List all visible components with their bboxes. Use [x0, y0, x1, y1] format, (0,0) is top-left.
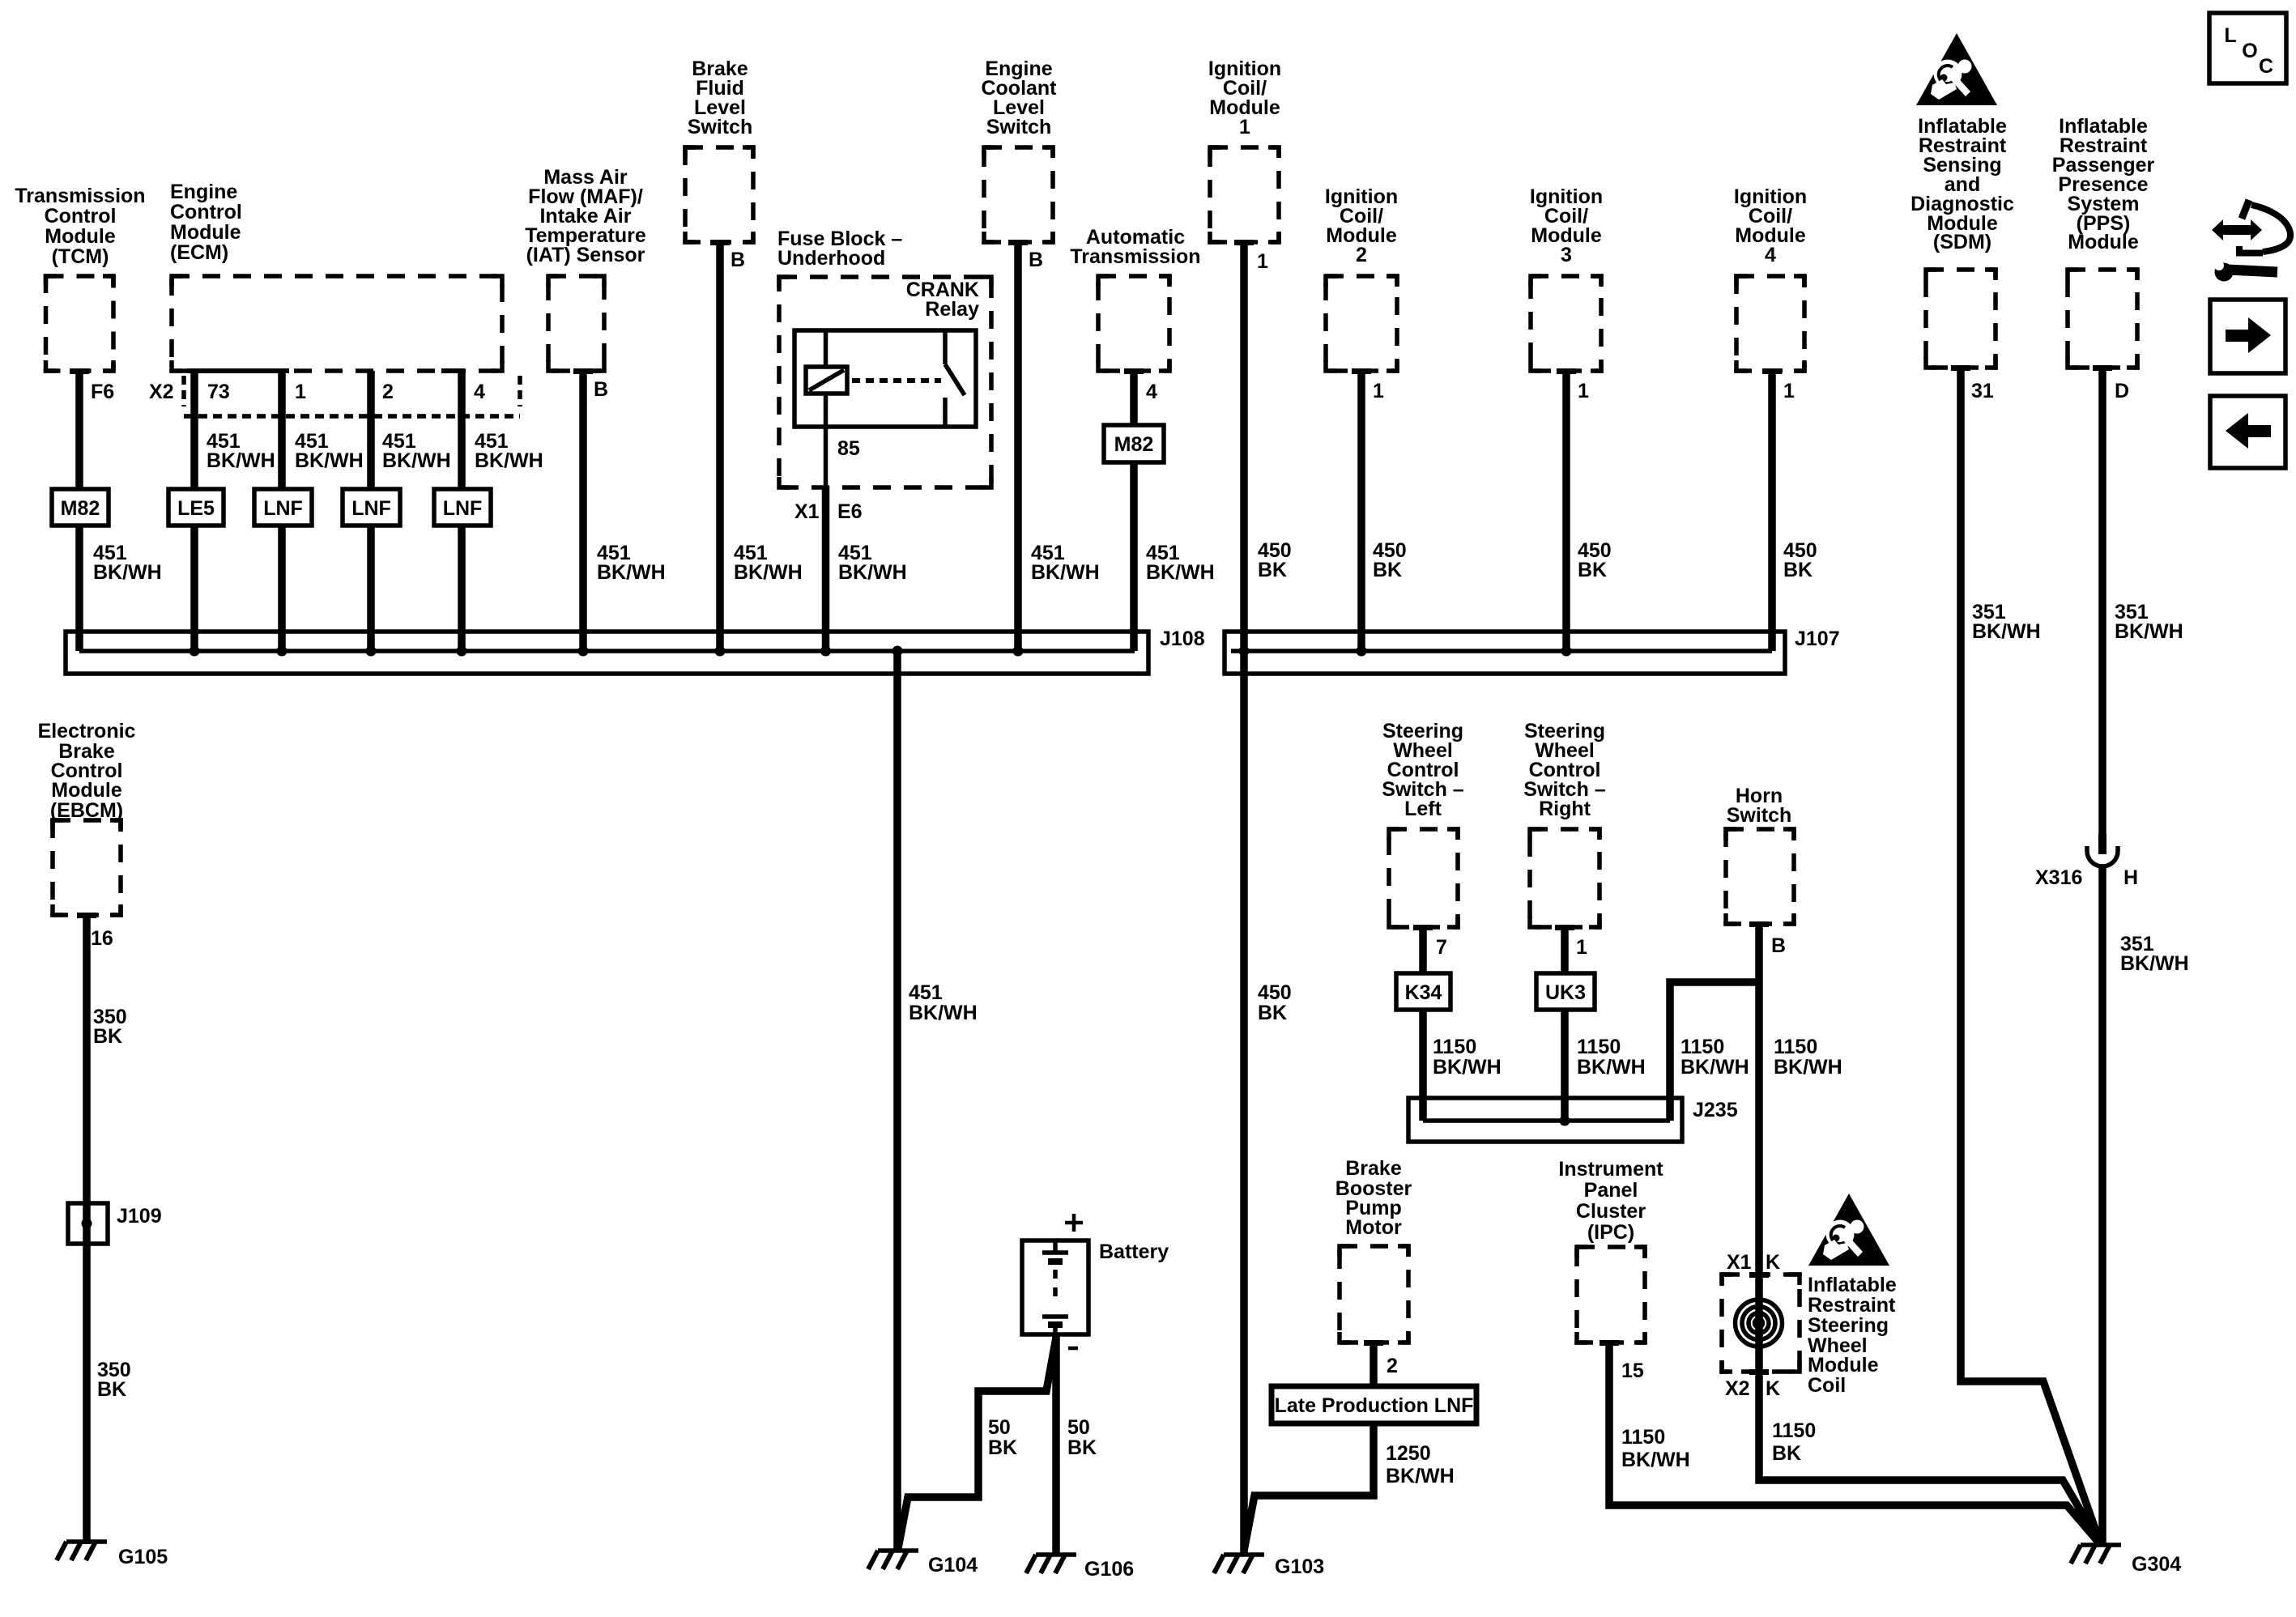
ground G103 — [1214, 1555, 1264, 1573]
TCM pin bar — [70, 368, 89, 374]
wire coil 3 to J107 — [1562, 371, 1570, 651]
Horn Switch label — [1727, 785, 1792, 827]
svg-text:BK/WH: BK/WH — [2115, 620, 2183, 643]
svg-text:4: 4 — [1765, 244, 1776, 266]
relay switch blade — [945, 364, 965, 395]
Ignition Coil/Module 2 label — [1325, 185, 1398, 266]
svg-text:1150: 1150 — [1680, 1036, 1724, 1058]
inline connector X316 — [2098, 834, 2106, 854]
svg-text:1150: 1150 — [1577, 1036, 1621, 1058]
wire coil 2 to J107 — [1357, 371, 1365, 651]
splice J109 — [68, 1203, 108, 1244]
wire MAF to J108 — [579, 371, 587, 651]
svg-text:1: 1 — [1783, 380, 1795, 402]
svg-text:X2: X2 — [149, 381, 174, 403]
svg-text:UK3: UK3 — [1545, 981, 1586, 1004]
back arrow box — [2210, 396, 2285, 468]
svg-text:50: 50 — [988, 1416, 1011, 1439]
svg-text:Cluster: Cluster — [1576, 1200, 1646, 1223]
battery cells — [1053, 1240, 1058, 1253]
svg-text:G105: G105 — [118, 1546, 168, 1568]
battery plus sign — [1065, 1214, 1083, 1232]
BBPM pin bar — [1364, 1340, 1383, 1346]
Ignition Coil/Module 2 box — [1326, 276, 1397, 371]
svg-text:85: 85 — [837, 437, 860, 460]
svg-text:450: 450 — [1258, 981, 1292, 1004]
svg-text:1150: 1150 — [1772, 1419, 1816, 1442]
clockspring pin bar upper — [1749, 1272, 1769, 1278]
wire ECM pin 2 to LNF — [367, 371, 375, 489]
relay coil feed wire — [824, 330, 829, 367]
splice pack J108 — [66, 632, 1148, 674]
wire SWCS-R to UK3 — [1561, 927, 1569, 973]
Engine Coolant Level Switch label — [981, 57, 1057, 138]
svg-text:Underhood: Underhood — [777, 247, 885, 270]
wire J108 to G104 — [893, 651, 901, 1551]
svg-text:Control: Control — [45, 205, 117, 228]
Ignition Coil/Module 1 label — [1208, 57, 1281, 138]
svg-text:X1: X1 — [794, 500, 820, 523]
svg-text:(TCM): (TCM) — [52, 245, 109, 268]
svg-text:73: 73 — [207, 381, 230, 403]
J235 bus bar — [1423, 1118, 1670, 1123]
svg-text:Late Production LNF: Late Production LNF — [1275, 1394, 1474, 1417]
svg-text:BK/WH: BK/WH — [1433, 1056, 1502, 1079]
svg-text:Battery: Battery — [1099, 1240, 1169, 1263]
svg-text:BK: BK — [1258, 559, 1287, 581]
svg-text:4: 4 — [1146, 381, 1157, 403]
svg-text:O: O — [2242, 40, 2257, 62]
svg-text:Restraint: Restraint — [1808, 1294, 1896, 1317]
svg-text:H: H — [2123, 866, 2138, 889]
Brake Booster Pump Motor box — [1340, 1246, 1408, 1343]
coil 3 pin bar — [1557, 368, 1576, 374]
wire LNF1 to J108 — [278, 526, 286, 651]
Ignition Coil/Module 3 label — [1530, 185, 1603, 266]
Late Production LNF box — [1272, 1386, 1476, 1423]
ECM box — [172, 276, 502, 371]
IPC pin bar — [1600, 1340, 1619, 1346]
battery box — [1022, 1240, 1088, 1334]
svg-text:BK/WH: BK/WH — [2120, 952, 2189, 975]
svg-text:Relay: Relay — [925, 298, 979, 321]
BFS pin bar — [710, 240, 730, 245]
Steering Wheel Control Switch - Right label — [1523, 720, 1606, 820]
svg-text:M82: M82 — [61, 497, 100, 520]
svg-text:BK/WH: BK/WH — [295, 449, 364, 472]
SWCS Right box — [1530, 829, 1600, 927]
connector K34 — [1396, 973, 1450, 1010]
battery minus sign — [1068, 1347, 1078, 1351]
connector LNF 1 — [254, 489, 312, 526]
svg-text:K34: K34 — [1405, 981, 1442, 1004]
ECLS pin bar — [1008, 240, 1028, 245]
Ignition Coil/Module 4 box — [1736, 276, 1804, 371]
J107 bus bar — [1231, 649, 1772, 653]
svg-text:BK: BK — [988, 1436, 1017, 1459]
Instrument Panel Cluster (IPC) label — [1558, 1158, 1663, 1244]
wire SWCS-L to K34 — [1419, 927, 1427, 973]
service icon: wrench — [2215, 263, 2234, 282]
svg-text:L: L — [2224, 24, 2236, 47]
TCM connector box — [46, 276, 114, 371]
PPS box — [2068, 270, 2137, 368]
Ignition Coil/Module 4 label — [1734, 185, 1807, 266]
svg-text:J107: J107 — [1795, 628, 1840, 650]
Automatic Transmission label — [1070, 226, 1200, 268]
svg-text:1: 1 — [1239, 116, 1250, 138]
svg-text:Module: Module — [51, 779, 122, 802]
svg-text:1250: 1250 — [1386, 1442, 1431, 1465]
MAF/IAT sensor box — [548, 276, 604, 371]
svg-text:BK: BK — [97, 1378, 126, 1401]
svg-text:Inflatable: Inflatable — [1808, 1274, 1897, 1296]
svg-text:Switch: Switch — [688, 116, 753, 138]
svg-text:Switch: Switch — [1727, 804, 1792, 827]
svg-text:G106: G106 — [1084, 1558, 1134, 1581]
wire ECLS to J108 — [1014, 242, 1022, 651]
svg-text:1150: 1150 — [1433, 1036, 1476, 1058]
svg-text:D: D — [2115, 380, 2129, 402]
SWCS Left box — [1389, 829, 1458, 927]
connector UK3 — [1536, 973, 1595, 1010]
wire EBCM to G105 — [83, 915, 91, 1544]
ground G104 — [868, 1551, 918, 1569]
svg-text:X316: X316 — [2035, 866, 2082, 889]
svg-text:BK/WH: BK/WH — [382, 449, 451, 472]
svg-text:B: B — [1771, 934, 1786, 957]
svg-text:K: K — [1766, 1377, 1780, 1400]
SDM box — [1926, 270, 1996, 368]
wire IPC to G304 — [1609, 1343, 2101, 1545]
wire SDM to G304 — [1961, 368, 2101, 1545]
wire battery to G106 — [1052, 1334, 1060, 1555]
svg-text:BK/WH: BK/WH — [1386, 1465, 1455, 1487]
svg-text:BK/WH: BK/WH — [1031, 561, 1100, 584]
EBCM pin bar — [77, 913, 96, 918]
svg-text:Steering: Steering — [1808, 1314, 1889, 1337]
Brake Fluid Level Switch label — [688, 57, 753, 138]
svg-text:C: C — [2259, 55, 2273, 78]
wire horn switch to clockspring and G304 — [1759, 924, 2101, 1545]
svg-text:BK: BK — [1783, 559, 1813, 581]
svg-text:BK/WH: BK/WH — [1577, 1056, 1646, 1079]
coil 2 pin bar — [1352, 368, 1371, 374]
clockspring coil spiral — [1736, 1300, 1783, 1347]
svg-text:7: 7 — [1436, 936, 1447, 959]
svg-text:LNF: LNF — [351, 497, 391, 520]
EBCM box — [53, 820, 121, 915]
svg-text:Module: Module — [1808, 1354, 1879, 1377]
svg-text:Electronic: Electronic — [38, 720, 136, 743]
warning triangle (clockspring) — [1808, 1194, 1889, 1266]
horn pin bar — [1749, 921, 1769, 927]
splice pack J235 — [1408, 1098, 1682, 1142]
svg-text:Left: Left — [1404, 798, 1442, 820]
svg-text:K: K — [1766, 1251, 1780, 1274]
wire UK3 to J235 — [1561, 1010, 1569, 1121]
junction dot on J235 — [1560, 1116, 1570, 1126]
svg-text:BK/WH: BK/WH — [838, 561, 907, 584]
svg-text:16: 16 — [91, 927, 113, 950]
junction dots on J108 — [190, 646, 200, 657]
svg-text:1150: 1150 — [1774, 1036, 1817, 1058]
clockspring pin bar lower — [1749, 1369, 1769, 1375]
svg-text:(SDM): (SDM) — [1933, 231, 1991, 253]
PPS pin bar — [2093, 365, 2112, 371]
relay switch fixed contact top — [943, 330, 948, 364]
svg-text:X1: X1 — [1727, 1251, 1752, 1274]
svg-text:Panel: Panel — [1584, 1179, 1638, 1202]
wire M82-AT to J108 — [1130, 462, 1138, 651]
forward arrow box — [2210, 300, 2285, 373]
connector M82 (AT) — [1104, 425, 1164, 462]
svg-text:(IAT) Sensor: (IAT) Sensor — [526, 244, 645, 266]
svg-text:451: 451 — [909, 981, 943, 1004]
svg-text:B: B — [731, 249, 745, 271]
LOC reference box — [2209, 13, 2286, 83]
ground G105 — [57, 1542, 107, 1560]
junction dots on J107 — [1239, 646, 1250, 657]
svg-text:B: B — [1029, 249, 1043, 271]
svg-text:BK: BK — [1578, 559, 1607, 581]
svg-text:G304: G304 — [2132, 1553, 2181, 1576]
svg-text:Control: Control — [170, 201, 242, 223]
svg-text:J109: J109 — [117, 1205, 162, 1228]
wire BFS to J108 — [716, 242, 724, 651]
Electronic Brake Control Module (EBCM) label — [38, 720, 136, 822]
connector LE5 — [168, 489, 224, 526]
wire coil 1 to J107 and down to G103 — [1240, 242, 1248, 1555]
ground G304 — [2071, 1545, 2121, 1564]
svg-text:2: 2 — [382, 381, 394, 403]
service icon: bent-arrow band — [2242, 200, 2249, 219]
svg-text:31: 31 — [1971, 380, 1994, 402]
coil 4 pin bar — [1762, 368, 1782, 374]
AT pin bar — [1124, 368, 1144, 374]
Transmission Control Module (TCM) label — [15, 185, 145, 268]
svg-text:BK/WH: BK/WH — [1146, 561, 1215, 584]
svg-text:LE5: LE5 — [177, 497, 215, 520]
svg-text:BK/WH: BK/WH — [1774, 1056, 1842, 1079]
SDM pin bar — [1951, 365, 1970, 371]
wire battery to G104 — [898, 1338, 1056, 1548]
dashed box corner marks — [46, 147, 2138, 1372]
connector M82 (TCM) — [52, 489, 109, 526]
J108 bus bar — [79, 649, 1135, 653]
relay actuation dashed link — [852, 378, 941, 383]
Mass Air Flow (MAF) / IAT Sensor label — [525, 166, 646, 266]
svg-text:M82: M82 — [1114, 433, 1154, 456]
wire Late Production LNF to G103 — [1244, 1423, 1374, 1551]
svg-text:1: 1 — [1373, 380, 1384, 402]
Ignition Coil/Module 1 box — [1210, 147, 1279, 242]
ECM X2 connector row — [187, 368, 289, 373]
svg-text:Engine: Engine — [170, 181, 237, 203]
svg-text:Motor: Motor — [1345, 1216, 1402, 1239]
warning triangle (SDM) — [1916, 33, 1997, 105]
wire J235 to horn branch — [1670, 982, 1759, 1121]
svg-text:2: 2 — [1387, 1355, 1398, 1377]
wire coil 4 to J107 — [1768, 371, 1776, 651]
svg-text:BK: BK — [93, 1025, 122, 1048]
relay switch fixed contact bottom — [943, 398, 948, 427]
IPC box — [1577, 1247, 1645, 1343]
svg-text:BK/WH: BK/WH — [597, 561, 666, 584]
wire TCM to M82 — [75, 371, 83, 489]
wire BBPM to Late Production LNF — [1370, 1343, 1378, 1386]
svg-text:BK/WH: BK/WH — [1680, 1056, 1749, 1079]
Horn Switch box — [1726, 829, 1794, 924]
svg-text:Module: Module — [2068, 231, 2139, 253]
wire LE5 to J108 — [190, 526, 198, 651]
wire LNF2 to J108 — [367, 526, 375, 651]
wire ECM pin 73 to LE5 — [190, 371, 198, 489]
svg-text:G104: G104 — [928, 1554, 978, 1577]
svg-text:1: 1 — [295, 381, 306, 403]
Inflatable Restraint Passenger Presence System (PPS) Module label — [2052, 115, 2155, 253]
Fuse Block - Underhood box — [779, 277, 991, 487]
svg-text:Brake: Brake — [1345, 1157, 1402, 1180]
svg-text:BK/WH: BK/WH — [1972, 620, 2041, 643]
CRANK Relay label — [906, 279, 979, 321]
svg-text:3: 3 — [1561, 244, 1572, 266]
svg-text:BK/WH: BK/WH — [909, 1002, 978, 1024]
Steering Wheel Control Switch - Left label — [1382, 720, 1464, 820]
svg-text:BK: BK — [1772, 1442, 1801, 1465]
svg-text:Module: Module — [45, 225, 116, 248]
CRANK relay box — [794, 330, 976, 427]
svg-text:B: B — [594, 378, 608, 401]
connector LNF 3 — [434, 489, 491, 526]
svg-text:2: 2 — [1356, 244, 1367, 266]
svg-text:BK/WH: BK/WH — [207, 449, 275, 472]
svg-text:1: 1 — [1257, 250, 1268, 273]
svg-text:Transmission: Transmission — [15, 185, 145, 207]
svg-text:BK/WH: BK/WH — [734, 561, 803, 584]
svg-text:Transmission: Transmission — [1070, 245, 1200, 268]
svg-text:BK/WH: BK/WH — [93, 561, 162, 584]
Engine Coolant Level Switch box — [984, 147, 1053, 242]
svg-text:4: 4 — [474, 381, 485, 403]
wire relay coil to J108 — [824, 394, 829, 487]
splice pack J107 — [1225, 632, 1785, 674]
svg-text:Right: Right — [1539, 798, 1591, 820]
ground G106 — [1026, 1555, 1076, 1573]
Brake Booster Pump Motor label — [1335, 1157, 1412, 1239]
Inflatable Restraint Steering Wheel Module Coil box — [1722, 1274, 1800, 1372]
svg-text:15: 15 — [1621, 1360, 1644, 1382]
relay coil — [806, 367, 847, 394]
wire K34 to J235 — [1419, 1010, 1427, 1121]
svg-text:E6: E6 — [837, 500, 863, 523]
Automatic Transmission box — [1098, 276, 1169, 371]
svg-text:(ECM): (ECM) — [170, 241, 228, 264]
svg-text:Coil: Coil — [1808, 1374, 1846, 1397]
svg-text:BK/WH: BK/WH — [1621, 1449, 1690, 1471]
wire ECM pin 1 to LNF — [278, 371, 286, 489]
svg-text:F6: F6 — [91, 381, 114, 403]
MAF pin bar — [573, 368, 593, 374]
wire X316 to G304 — [2098, 867, 2106, 1545]
wire LNF3 to J108 — [458, 526, 466, 651]
SWCS-R pin bar — [1555, 925, 1574, 930]
Inflatable Restraint Sensing and Diagnostic Module (SDM) label — [1910, 115, 2014, 253]
svg-text:50: 50 — [1067, 1416, 1090, 1439]
svg-text:BK: BK — [1373, 559, 1402, 581]
svg-text:(IPC): (IPC) — [1587, 1221, 1634, 1244]
wire PPS to X316 — [2098, 368, 2106, 834]
Brake Fluid Level Switch box — [685, 147, 753, 242]
svg-text:BK: BK — [1258, 1002, 1287, 1024]
wire AT to M82 — [1130, 371, 1138, 425]
svg-text:1: 1 — [1578, 380, 1589, 402]
svg-text:J108: J108 — [1160, 628, 1205, 650]
svg-text:1150: 1150 — [1621, 1426, 1665, 1449]
service icon: double arrow — [2212, 219, 2262, 240]
coil 1 pin bar — [1234, 240, 1254, 245]
SWCS-L pin bar — [1413, 925, 1433, 930]
svg-text:LNF: LNF — [443, 497, 483, 520]
wire ECM pin 4 to LNF — [458, 371, 466, 489]
svg-text:BK/WH: BK/WH — [475, 449, 543, 472]
svg-text:BK: BK — [1067, 1436, 1097, 1459]
svg-text:Switch: Switch — [986, 116, 1052, 138]
svg-text:G103: G103 — [1275, 1555, 1324, 1578]
svg-text:LNF: LNF — [263, 497, 303, 520]
connector LNF 2 — [343, 489, 400, 526]
svg-text:1: 1 — [1576, 936, 1587, 959]
svg-text:Module: Module — [170, 221, 241, 244]
svg-text:X2: X2 — [1725, 1377, 1750, 1400]
svg-text:J235: J235 — [1693, 1099, 1738, 1121]
wire M82 to J108 — [75, 526, 83, 651]
Ignition Coil/Module 3 box — [1531, 276, 1601, 371]
svg-text:Instrument: Instrument — [1558, 1158, 1663, 1181]
